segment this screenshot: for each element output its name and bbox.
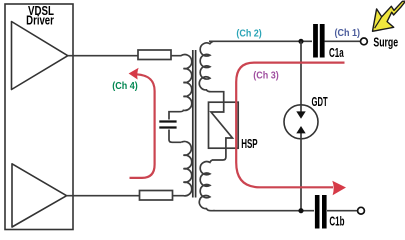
- op-amp A2 (bottom driver amplifier): [12, 164, 67, 227]
- red current path (Ch 4 loop): [130, 74, 155, 178]
- transformer T1 secondary top winding: [199, 41, 223, 102]
- svg-text:(Ch 1): (Ch 1): [335, 28, 360, 40]
- svg-text:(Ch 3): (Ch 3): [253, 70, 278, 82]
- svg-text:(Ch 4): (Ch 4): [112, 81, 137, 93]
- lightning bolt (surge strike): [373, 1, 405, 31]
- VDSL Driver label: [26, 5, 54, 28]
- transformer T1 primary top winding: [169, 55, 192, 120]
- terminal (surge input, top): [361, 38, 368, 45]
- transformer T1 primary bottom winding: [173, 141, 192, 195]
- capacitor C2 bottom plate: [159, 126, 176, 128]
- capacitor C1a plates: [313, 24, 318, 58]
- op-amp A1 (top driver amplifier): [12, 22, 68, 90]
- wire: secondary top to C1a: [209, 40, 312, 42]
- svg-text:Surge: Surge: [373, 36, 398, 50]
- capacitor C1b plates: [315, 195, 320, 229]
- capacitor C2 (primary center tap) top plate: [159, 120, 176, 122]
- resistor R1 (top): [138, 50, 171, 60]
- wire: secondary bottom to C1b: [213, 210, 314, 212]
- svg-text:Driver: Driver: [26, 15, 54, 28]
- wire: C1a to surge terminal: [324, 40, 360, 42]
- GDT bottom electrode arrow: [300, 132, 302, 139]
- svg-text:C1a: C1a: [329, 47, 344, 60]
- terminal (bottom): [358, 207, 365, 214]
- transformer core: [193, 50, 196, 198]
- wire: bottom amp output to resistor R2: [67, 195, 140, 197]
- svg-text:(Ch 2): (Ch 2): [236, 28, 261, 40]
- transformer T1 secondary bottom winding: [199, 160, 215, 211]
- node: junction bottom (GDT tap): [298, 208, 303, 213]
- red arrowhead (Ch 3, pointing right): [332, 181, 346, 196]
- wire: top amp output to resistor R1: [68, 55, 138, 57]
- red arrowhead (Ch 4, pointing left): [129, 68, 139, 80]
- svg-text:C1b: C1b: [329, 216, 344, 229]
- HSP box: [209, 102, 239, 148]
- svg-text:HSP: HSP: [241, 139, 257, 152]
- GDT bottom lead: [300, 139, 302, 211]
- GDT circle: [284, 105, 318, 139]
- GDT top electrode arrow: [300, 105, 302, 112]
- VDSL Driver box: [5, 4, 73, 230]
- red current path (Ch 3 surge loop): [236, 63, 344, 188]
- resistor R2 (bottom): [140, 191, 173, 201]
- node: junction top (GDT tap): [298, 39, 303, 44]
- svg-text:GDT: GDT: [312, 96, 329, 109]
- HSP thyristor symbol: [211, 102, 233, 160]
- wire: C1b to bottom terminal: [327, 210, 357, 212]
- wire: capacitor to primary bottom winding: [169, 130, 181, 143]
- GDT top lead: [300, 41, 302, 105]
